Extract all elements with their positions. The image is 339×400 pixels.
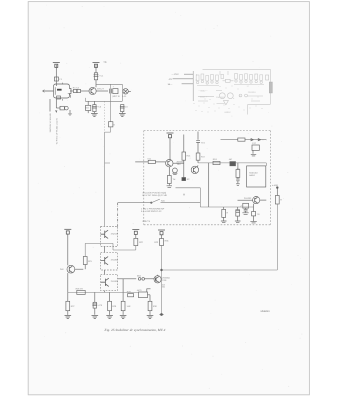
svg-text:30k: 30k	[162, 285, 165, 288]
svg-text:2N2148: 2N2148	[111, 232, 119, 235]
svg-text:Fig. 25 Stabilizer dc synchro: Fig. 25 Stabilizer dc synchronization, M…	[104, 328, 166, 332]
svg-text:TH: TH	[173, 178, 176, 181]
svg-text:REG: REG	[85, 106, 90, 109]
svg-text:⊢⊣: ⊢⊣	[263, 139, 267, 142]
svg-text:TS: TS	[103, 61, 107, 64]
svg-text:+ C1: + C1	[99, 75, 104, 78]
svg-text:BY127: BY127	[97, 88, 104, 91]
svg-text:5.2 at INT./INPUT AC: 5.2 at INT./INPUT AC	[141, 210, 162, 213]
svg-text:—5842 7—: —5842 7—	[198, 95, 210, 98]
svg-text:A: A	[183, 192, 185, 196]
svg-text:—8052—: —8052—	[198, 89, 208, 92]
svg-text:TO PIN 4 OF PL802 (AC) IN: TO PIN 4 OF PL802 (AC) IN	[56, 118, 59, 145]
svg-text:—1742: —1742	[172, 73, 180, 76]
svg-text:2N1302: 2N1302	[111, 259, 119, 262]
svg-text:2N1302: 2N1302	[111, 280, 119, 283]
svg-text:84052: 84052	[249, 174, 255, 177]
svg-text:110/220V AC MAINS: 110/220V AC MAINS	[49, 113, 52, 133]
svg-text:6.3 V DC WALL(8) 22 dB: 6.3 V DC WALL(8) 22 dB	[142, 194, 167, 197]
svg-text:o ARR: o ARR	[272, 184, 279, 187]
svg-text:7R: 7R	[257, 213, 260, 216]
svg-text:14R: 14R	[127, 305, 131, 308]
svg-text:1M: 1M	[237, 167, 240, 170]
svg-text:MOT.N: MOT.N	[113, 95, 120, 98]
svg-text:2067 S: 2067 S	[142, 220, 150, 223]
svg-text:4k7S: 4k7S	[137, 289, 142, 292]
svg-text:5kΩ: 5kΩ	[137, 275, 141, 278]
svg-text:MM8063: MM8063	[261, 310, 271, 313]
svg-text:R26 C9: R26 C9	[76, 287, 84, 290]
svg-text:R1 C2: R1 C2	[73, 86, 80, 89]
svg-text:84052: 84052	[225, 111, 232, 114]
svg-text:2N1302: 2N1302	[244, 197, 252, 200]
svg-text:2N1304: 2N1304	[248, 91, 256, 94]
svg-text:204 7052: 204 7052	[216, 96, 225, 99]
